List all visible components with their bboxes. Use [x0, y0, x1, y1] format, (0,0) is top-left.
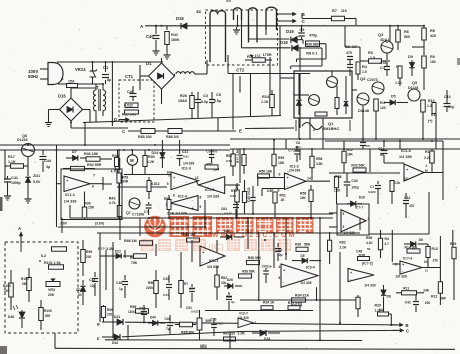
svg-text:1/4 339: 1/4 339 [183, 162, 194, 166]
svg-text:1/4 339: 1/4 339 [364, 284, 375, 288]
svg-text:1.1k: 1.1k [395, 81, 402, 85]
svg-text:R50: R50 [148, 155, 155, 159]
svg-text:2.2K: 2.2K [334, 189, 341, 193]
svg-text:2: 2 [255, 321, 257, 325]
svg-text:F: F [61, 77, 64, 82]
svg-text:D40: D40 [8, 315, 14, 319]
svg-text:500: 500 [45, 314, 51, 318]
svg-text:WWW.DZSC.COM: WWW.DZSC.COM [212, 232, 297, 239]
svg-text:11: 11 [425, 269, 429, 273]
svg-text:220k: 220k [146, 286, 153, 290]
svg-text:0.01: 0.01 [163, 293, 169, 297]
svg-text:1/4 339: 1/4 339 [289, 169, 300, 173]
svg-text:280: 280 [22, 282, 28, 286]
svg-text:C?: C? [370, 185, 374, 189]
svg-text:R15 5.1K: R15 5.1K [288, 301, 303, 305]
svg-text:R99: R99 [86, 250, 92, 254]
svg-text:0.812: 0.812 [152, 182, 160, 186]
svg-text:B: B [97, 323, 100, 327]
svg-text:C: C [406, 329, 409, 334]
svg-text:C2073: C2073 [367, 78, 378, 82]
svg-text:27k: 27k [433, 259, 439, 263]
svg-text:50Hz: 50Hz [28, 74, 39, 79]
svg-text:D5: D5 [391, 95, 396, 99]
svg-text:R85 330: R85 330 [138, 135, 152, 139]
svg-text:E: E [239, 129, 242, 134]
svg-text:10: 10 [424, 260, 428, 264]
svg-text:0.042: 0.042 [224, 212, 232, 216]
svg-text:D1: D1 [146, 61, 152, 66]
svg-text:R58: R58 [316, 157, 322, 161]
svg-text:R33 56K: R33 56K [351, 164, 365, 168]
svg-text:1μ: 1μ [119, 287, 123, 291]
svg-text:R86: R86 [148, 281, 154, 285]
svg-text:8: 8 [278, 189, 280, 193]
svg-text:R6: R6 [404, 30, 409, 34]
svg-text:4x: 4x [196, 9, 201, 14]
svg-text:CT1: CT1 [125, 74, 134, 79]
svg-text:R34 1K: R34 1K [263, 300, 275, 304]
svg-text:C46: C46 [116, 281, 122, 285]
svg-text:T: T [96, 85, 99, 90]
svg-text:4.01: 4.01 [295, 145, 301, 149]
svg-text:R83 220: R83 220 [223, 332, 235, 336]
svg-text:3μ: 3μ [46, 165, 50, 169]
svg-text:1.2K: 1.2K [147, 160, 155, 164]
svg-text:110: 110 [341, 9, 347, 13]
svg-text:R88 5/4: R88 5/4 [166, 135, 179, 139]
svg-text:D42: D42 [112, 341, 118, 345]
svg-text:C40: C40 [127, 90, 134, 94]
svg-text:R24: R24 [262, 95, 270, 99]
svg-text:4.7: 4.7 [385, 242, 390, 246]
svg-text:IC1-3: IC1-3 [205, 188, 214, 192]
svg-text:0.022: 0.022 [368, 190, 376, 194]
svg-text:10k: 10k [221, 281, 227, 285]
svg-text:R4: R4 [385, 237, 389, 241]
svg-text:0.5A: 0.5A [230, 194, 237, 198]
svg-text:C64: C64 [221, 207, 227, 211]
svg-text:R17: R17 [8, 155, 15, 159]
svg-text:R26: R26 [180, 94, 187, 98]
svg-text:35R: 35R [122, 180, 129, 184]
svg-text:13: 13 [195, 176, 199, 180]
svg-text:1.5: 1.5 [362, 70, 367, 74]
svg-text:R30: R30 [295, 243, 301, 247]
svg-text:D1226: D1226 [17, 138, 28, 142]
svg-text:1500μ: 1500μ [11, 181, 21, 185]
svg-text:1/4 339: 1/4 339 [64, 200, 77, 204]
svg-text:R62: R62 [339, 241, 345, 245]
svg-text:R100: R100 [21, 277, 29, 281]
svg-text:4.7k: 4.7k [111, 170, 118, 174]
svg-text:D6: D6 [419, 238, 423, 242]
svg-text:220: 220 [86, 255, 92, 259]
svg-text:470: 470 [212, 150, 218, 154]
svg-text:R3: R3 [368, 51, 373, 55]
svg-text:14: 14 [307, 177, 311, 181]
svg-text:C41: C41 [11, 176, 18, 180]
svg-text:Q5: Q5 [412, 81, 417, 85]
svg-text:1: 1 [426, 164, 428, 168]
svg-text:(3.6V): (3.6V) [95, 222, 104, 226]
svg-text:9: 9 [200, 205, 202, 209]
svg-text:D1128: D1128 [408, 86, 418, 90]
svg-text:C8: C8 [206, 150, 210, 154]
svg-text:9: 9 [279, 173, 281, 177]
svg-text:2.2M: 2.2M [238, 332, 245, 336]
svg-text:R11: R11 [403, 287, 409, 291]
svg-text:D16: D16 [58, 94, 66, 99]
svg-text:100μ: 100μ [351, 186, 358, 190]
svg-text:R5: R5 [430, 29, 435, 33]
svg-text:IC?-3: IC?-3 [403, 257, 412, 261]
svg-text:R56: R56 [366, 236, 372, 240]
svg-text:IC3-1: IC3-1 [209, 259, 218, 263]
svg-text:3.6V: 3.6V [60, 222, 68, 226]
svg-text:200: 200 [425, 301, 431, 305]
svg-text:C6: C6 [366, 144, 370, 148]
svg-text:20K: 20K [48, 293, 55, 297]
svg-text:R41: R41 [171, 33, 178, 37]
svg-text:8.5μ: 8.5μ [201, 100, 208, 104]
svg-text:C21: C21 [182, 150, 188, 154]
svg-text:5: 5 [343, 212, 345, 216]
svg-text:15A: 15A [68, 80, 75, 84]
svg-text:120: 120 [380, 106, 386, 110]
svg-text:D26: D26 [227, 278, 233, 282]
svg-text:5: 5 [167, 182, 169, 186]
svg-text:VR4: VR4 [200, 346, 207, 350]
svg-text:8μ: 8μ [107, 78, 111, 82]
svg-text:R8 0.1: R8 0.1 [306, 52, 317, 56]
svg-text:Q7: Q7 [126, 211, 131, 215]
svg-text:C45 0.022: C45 0.022 [247, 187, 251, 202]
svg-text:C34: C34 [351, 179, 357, 183]
svg-text:R88 1M: R88 1M [124, 239, 137, 243]
svg-text:D5: D5 [301, 254, 305, 258]
svg-text:170R: 170R [263, 53, 272, 57]
svg-text:R13: R13 [432, 247, 438, 251]
svg-text:C49: C49 [163, 277, 169, 281]
svg-text:3.5K: 3.5K [316, 162, 323, 166]
svg-text:18K: 18K [278, 161, 285, 165]
svg-text:0.2k: 0.2k [394, 181, 400, 185]
svg-text:C3: C3 [203, 94, 208, 98]
svg-text:R100: R100 [44, 309, 52, 313]
svg-text:R11: R11 [431, 113, 437, 117]
svg-text:24K: 24K [423, 289, 430, 293]
svg-text:D19: D19 [286, 29, 294, 34]
svg-text:CT2: CT2 [236, 68, 245, 73]
svg-text:2: 2 [368, 217, 370, 221]
svg-text:180K: 180K [171, 38, 180, 42]
svg-text:IC1-4: IC1-4 [401, 148, 412, 153]
svg-text:1/4 339: 1/4 339 [399, 155, 412, 159]
svg-text:(IC): (IC) [208, 242, 224, 253]
svg-text:R50: R50 [259, 170, 265, 174]
svg-text:1/4 339: 1/4 339 [207, 195, 219, 199]
svg-text:2.2A: 2.2A [339, 246, 346, 250]
svg-text:D9: D9 [408, 55, 413, 59]
svg-text:VRS1: VRS1 [75, 67, 87, 72]
svg-text:R36 56K: R36 56K [242, 270, 255, 274]
svg-text:8: 8 [279, 276, 281, 280]
svg-text:0.01: 0.01 [183, 155, 189, 159]
svg-text:15AK: 15AK [178, 99, 188, 103]
svg-text:110k: 110k [128, 310, 135, 314]
svg-text:R104: R104 [3, 284, 11, 288]
svg-text:8: 8 [200, 196, 202, 200]
svg-text:7: 7 [287, 171, 289, 175]
svg-text:9.5μ: 9.5μ [214, 99, 221, 103]
svg-text:R34 55R: R34 55R [87, 163, 102, 167]
svg-text:420: 420 [430, 34, 436, 38]
svg-text:Q3: Q3 [378, 32, 384, 37]
svg-text:M: M [130, 158, 134, 163]
svg-text:0.01: 0.01 [380, 61, 387, 65]
svg-text:6: 6 [173, 194, 175, 198]
svg-text:75K: 75K [131, 261, 138, 265]
svg-text:R9: R9 [430, 55, 435, 59]
svg-text:C42: C42 [405, 301, 411, 305]
svg-text:10: 10 [168, 174, 172, 178]
svg-text:IC2-4: IC2-4 [178, 195, 188, 199]
svg-text:3μ: 3μ [231, 300, 235, 304]
svg-text:IC2-3: IC2-3 [182, 167, 191, 171]
svg-text:1A: 1A [379, 308, 384, 312]
svg-text:56R: 56R [440, 297, 447, 301]
svg-text:4: 4 [279, 265, 281, 269]
svg-text:56K: 56K [304, 243, 311, 247]
svg-text:159: 159 [267, 265, 272, 269]
svg-text:R71: R71 [231, 189, 237, 193]
svg-text:R46 18K: R46 18K [84, 152, 99, 156]
svg-text:560: 560 [404, 35, 410, 39]
svg-text:4.7k: 4.7k [109, 201, 116, 205]
svg-text:R29: R29 [375, 304, 381, 308]
svg-text:R?? 3.3M: R?? 3.3M [98, 247, 114, 251]
svg-text:6.2: 6.2 [41, 254, 46, 258]
svg-text:180: 180 [430, 60, 436, 64]
svg-text:IC?-?: IC?-? [355, 206, 363, 210]
svg-text:R?: R? [184, 282, 188, 286]
svg-text:B: B [406, 323, 409, 328]
svg-text:R56: R56 [300, 192, 306, 196]
svg-text:12: 12 [404, 177, 408, 181]
svg-text:1/6 339: 1/6 339 [395, 275, 406, 279]
svg-text:220: 220 [107, 313, 113, 317]
svg-text:470μ: 470μ [309, 34, 317, 38]
svg-text:C?: C? [144, 210, 149, 214]
svg-text:10μ: 10μ [448, 105, 454, 109]
svg-text:1K: 1K [281, 198, 286, 202]
svg-text:D40: D40 [150, 316, 156, 320]
svg-text:7: 7 [93, 174, 95, 178]
svg-text:18K: 18K [347, 153, 354, 157]
svg-text:R36: R36 [335, 175, 341, 179]
svg-text:4: 4 [343, 225, 345, 229]
svg-text:6: 6 [92, 185, 94, 189]
svg-text:R?? 3.5K: R?? 3.5K [236, 148, 240, 163]
svg-text:D7: D7 [72, 150, 77, 154]
svg-text:470: 470 [409, 204, 415, 208]
svg-text:D24: D24 [152, 151, 159, 155]
svg-text:C?1208: C?1208 [132, 213, 144, 217]
svg-text:15K: 15K [88, 206, 95, 210]
svg-text:GM1BHC: GM1BHC [322, 126, 339, 131]
svg-text:R12: R12 [347, 148, 353, 152]
svg-text:7μ: 7μ [166, 327, 170, 331]
svg-text:[IC?-2]: [IC?-2] [362, 262, 373, 266]
svg-text:1/4 339: 1/4 339 [300, 281, 311, 285]
svg-text:470: 470 [346, 51, 352, 55]
svg-text:R12: R12 [431, 295, 437, 299]
svg-text:D41: D41 [114, 315, 120, 319]
svg-text:D18: D18 [176, 16, 184, 21]
svg-text:D8: D8 [387, 295, 391, 299]
svg-text:R30 680: R30 680 [306, 43, 319, 47]
svg-text:R42: R42 [109, 197, 116, 201]
svg-text:2.5K: 2.5K [226, 159, 233, 163]
svg-text:R55: R55 [278, 156, 284, 160]
svg-text:R51: R51 [280, 194, 286, 198]
svg-text:4.1K: 4.1K [366, 241, 373, 245]
svg-text:C??: C?? [288, 149, 294, 153]
svg-text:5.6V: 5.6V [33, 180, 41, 184]
svg-text:18K: 18K [266, 170, 273, 174]
svg-text:R7: R7 [332, 9, 337, 13]
svg-text:D10: D10 [359, 196, 365, 200]
svg-text:R96: R96 [107, 308, 113, 312]
svg-text:180K: 180K [187, 331, 195, 335]
svg-text:1.1K: 1.1K [261, 100, 269, 104]
svg-text:C42: C42 [404, 196, 410, 200]
svg-text:IC3-4: IC3-4 [306, 266, 315, 270]
svg-text:220: 220 [4, 289, 10, 293]
svg-text:10K: 10K [300, 196, 307, 200]
svg-text:R38: R38 [248, 256, 254, 260]
svg-text:50: 50 [367, 247, 371, 251]
svg-text:D18: D18 [280, 40, 288, 45]
svg-text:Q4: Q4 [360, 76, 366, 81]
svg-text:D: D [114, 117, 117, 122]
svg-text:ZD1: ZD1 [33, 174, 40, 178]
svg-text:IC3-?: IC3-? [239, 312, 248, 316]
svg-text:0.033: 0.033 [191, 310, 199, 314]
svg-text:VR3: VR3 [48, 288, 55, 292]
svg-text:R88: R88 [226, 154, 232, 158]
svg-text:C5: C5 [216, 93, 221, 97]
